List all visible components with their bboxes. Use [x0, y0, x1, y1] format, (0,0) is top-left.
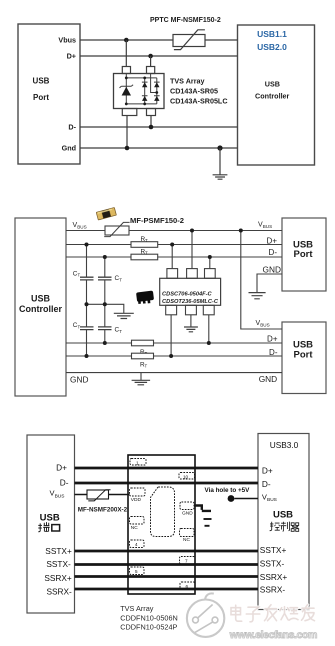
- ground bar 2: [205, 525, 210, 527]
- svg-text:D-: D-: [269, 248, 278, 257]
- dashed pin 7: [180, 557, 196, 565]
- label VBUS left: [50, 489, 65, 500]
- svg-text:CDSC706-0504F-C: CDSC706-0504F-C: [162, 291, 213, 297]
- wire D-: [80, 126, 238, 128]
- svg-text:BUS: BUS: [260, 323, 269, 328]
- svg-text:NC: NC: [183, 537, 190, 543]
- pin top 3: [205, 269, 216, 279]
- ground symbol: [219, 148, 221, 175]
- svg-text:CDSOT236-05MLC-C: CDSOT236-05MLC-C: [162, 299, 219, 305]
- label CT4: [115, 327, 123, 334]
- svg-text:VDD: VDD: [131, 497, 142, 503]
- svg-text:Port: Port: [294, 249, 314, 260]
- svg-text:MF-PSMF150-2: MF-PSMF150-2: [130, 216, 184, 225]
- svg-text:T: T: [145, 251, 148, 256]
- svg-text:6: 6: [186, 584, 189, 589]
- dashed pin 1: [130, 459, 146, 466]
- ground symbol CDSOT: [184, 327, 198, 332]
- wire D-: [75, 482, 259, 485]
- ground symbol top port: [249, 293, 266, 299]
- ground symbol GND line: [140, 373, 142, 380]
- TVS chip outline: [128, 455, 195, 594]
- svg-text:BUS: BUS: [77, 225, 86, 230]
- svg-text:www.elecfans.com: www.elecfans.com: [229, 629, 317, 641]
- wire Vbus: [80, 39, 238, 41]
- wire pin bottom3 to D+ bottom: [208, 315, 210, 343]
- svg-text:USB: USB: [273, 510, 293, 521]
- svg-text:SSRX+: SSRX+: [260, 572, 288, 582]
- label port CJK: [38, 522, 59, 532]
- resistor RT3: [132, 340, 154, 346]
- node D- cap2: [103, 255, 107, 259]
- TVS internal nodes: [125, 77, 158, 106]
- steering diodes column A: [142, 82, 148, 96]
- svg-text:Controller: Controller: [19, 304, 62, 314]
- svg-text:Port: Port: [33, 93, 49, 102]
- svg-text:SSTX-: SSTX-: [46, 559, 71, 569]
- svg-text:SSTX+: SSTX+: [45, 546, 72, 556]
- wire VBUS: [75, 494, 130, 496]
- GND trace from pin 9: [194, 506, 211, 511]
- resistor RT2: [131, 254, 158, 260]
- svg-text:D+: D+: [267, 334, 278, 343]
- USB Controller box: [15, 218, 66, 396]
- svg-text:CD143A-SR05LC: CD143A-SR05LC: [170, 97, 228, 106]
- capacitor CT2 plates: [98, 277, 112, 280]
- svg-text:T: T: [119, 278, 122, 283]
- capacitor CT3 plates: [80, 327, 94, 330]
- logo plug circles: [193, 617, 199, 623]
- label V_BUS top left: [73, 222, 87, 230]
- svg-text:USB1.1: USB1.1: [257, 29, 287, 39]
- node Gnd junction right: [217, 145, 222, 150]
- svg-text:TVS Array: TVS Array: [120, 604, 154, 613]
- wire via to controller: [234, 498, 258, 500]
- TVS CDSOT236 box: [160, 278, 221, 305]
- svg-text:USB: USB: [40, 513, 60, 524]
- label CT2: [115, 275, 123, 282]
- dashed pin 10: [179, 473, 195, 480]
- dashed pin 5: [130, 567, 145, 575]
- label controller CJK: [270, 522, 299, 532]
- zener diode D1: [120, 85, 134, 88]
- USB port box left: [27, 435, 75, 613]
- wire pin bottom2 to ground: [190, 315, 192, 327]
- label RT1: [141, 236, 149, 243]
- label RT2: [141, 248, 149, 255]
- svg-text:GND: GND: [70, 375, 88, 385]
- fuse MF-PSMF150-2: [105, 226, 129, 235]
- pin top 1: [167, 269, 178, 279]
- svg-text:5: 5: [135, 569, 138, 574]
- photo SOT23 chip: [136, 290, 154, 303]
- svg-text:SSRX+: SSRX+: [44, 573, 72, 583]
- wire Gnd: [80, 147, 238, 149]
- svg-text:Vbus: Vbus: [58, 36, 76, 45]
- label TVS Array part numbers: [120, 604, 178, 632]
- steering diodes column B: [154, 82, 160, 96]
- label RT4: [140, 361, 148, 368]
- wire GND: [66, 372, 282, 374]
- svg-text:Gnd: Gnd: [62, 144, 76, 153]
- wire SSTX-: [75, 563, 259, 566]
- node VBUS branch: [239, 229, 243, 233]
- label CDSOT part numbers: [162, 291, 219, 305]
- svg-text:CD143A-SR05: CD143A-SR05: [170, 86, 218, 95]
- svg-text:SSRX-: SSRX-: [46, 586, 72, 596]
- USB Port box top: [282, 218, 326, 291]
- svg-text:D+: D+: [56, 463, 67, 473]
- svg-text:GND: GND: [263, 264, 281, 274]
- label CT3: [73, 322, 81, 329]
- wire D+ bottom: [66, 342, 282, 344]
- svg-text:T: T: [78, 273, 81, 278]
- wire SSTX+: [75, 550, 259, 553]
- svg-text:BUS: BUS: [263, 224, 272, 229]
- svg-text:SSTX-: SSTX-: [260, 559, 285, 569]
- wire TVS pin3 to D-: [150, 116, 152, 128]
- dashed pin 6: [180, 582, 195, 589]
- node pinB1: [169, 354, 173, 358]
- wire pin bottom1 to D- bottom: [170, 315, 172, 356]
- svg-text:CDDFN10-0506N: CDDFN10-0506N: [120, 613, 178, 622]
- svg-text:GND: GND: [182, 510, 193, 516]
- dashed pin 9 GND: [180, 502, 194, 510]
- USB Port box bottom: [282, 322, 326, 394]
- label TVS Array CD143A-SR05: [170, 77, 228, 106]
- svg-text:T: T: [145, 364, 148, 369]
- svg-text:PPTC MF-NSMF150-2: PPTC MF-NSMF150-2: [150, 17, 221, 24]
- label CT1: [73, 270, 81, 277]
- capacitor CT4 plates: [98, 327, 112, 330]
- svg-text:TVS Array: TVS Array: [170, 77, 205, 86]
- die dashed outline: [151, 487, 175, 537]
- dashed pin 2 VDD: [130, 488, 146, 496]
- node Vbus junction: [124, 38, 129, 43]
- node D- junction: [149, 125, 154, 130]
- SECTION1: [18, 17, 315, 179]
- SECTION3: [27, 434, 309, 632]
- wire GND stub top port: [257, 274, 282, 292]
- USB controller box right: [258, 434, 309, 610]
- wire pin top3 to D-: [209, 257, 211, 269]
- svg-text:D-: D-: [68, 123, 76, 132]
- mid rail to ground: [87, 304, 124, 313]
- dashed pin 4: [130, 540, 145, 548]
- svg-text:D-: D-: [60, 478, 69, 488]
- fuse MF-NSMF200X-2: [87, 490, 109, 499]
- TVS array U1 package: [114, 74, 165, 109]
- capacitor column 2: [104, 257, 106, 343]
- node mid2: [103, 302, 107, 306]
- node D+ junction: [148, 54, 153, 59]
- wire VBUS branch to bottom port: [241, 231, 282, 330]
- svg-text:T: T: [119, 329, 122, 334]
- pin bottom 1: [166, 305, 177, 315]
- node D- cap3: [85, 354, 89, 358]
- svg-text:T: T: [145, 238, 148, 243]
- wire pin top1 to D+: [171, 245, 173, 269]
- labels right box: [260, 440, 299, 595]
- node mid1: [85, 302, 89, 306]
- node pinB3: [207, 341, 211, 345]
- TVS internal rails: [126, 74, 157, 104]
- SECTION2: [15, 207, 326, 396]
- ground bar 1: [204, 518, 212, 520]
- svg-text:SSTX+: SSTX+: [260, 545, 287, 555]
- photo PSMF chip: [96, 207, 117, 220]
- node pin1 D+: [170, 243, 174, 247]
- node Gnd junction left: [125, 146, 130, 151]
- logo circle: [187, 600, 224, 637]
- svg-text:D+: D+: [67, 52, 76, 61]
- watermark text dianzifashaoyou: [231, 605, 315, 622]
- svg-text:Controller: Controller: [255, 92, 290, 101]
- svg-text:T: T: [78, 324, 81, 329]
- capacitor column 1: [86, 245, 88, 357]
- logo tail: [205, 593, 214, 600]
- resistor RT1: [131, 242, 158, 248]
- svg-text:1: 1: [136, 460, 139, 465]
- wire D- bottom: [66, 355, 282, 357]
- ground symbol mid: [114, 313, 134, 318]
- via dot: [228, 495, 235, 502]
- wire Vbus to TVS pin1: [125, 40, 127, 67]
- PPTC fuse F1: [173, 35, 205, 47]
- svg-text:USB: USB: [31, 294, 51, 304]
- wire pin top2 to VBUS: [191, 231, 193, 269]
- svg-text:Port: Port: [294, 349, 314, 360]
- resistor RT4: [132, 353, 154, 359]
- wire D+ to TVS pin2: [150, 56, 152, 67]
- dashed pin 3 NC: [130, 517, 145, 525]
- svg-text:USB3.0: USB3.0: [270, 440, 299, 450]
- svg-text:MF-NSMF200X-2: MF-NSMF200X-2: [78, 507, 128, 514]
- wire D+ top: [66, 244, 282, 246]
- wire SSRX+: [75, 575, 259, 578]
- wire TVS pin4 to Gnd: [126, 116, 128, 149]
- pin top 2: [187, 269, 198, 279]
- node D+ cap1: [85, 243, 89, 247]
- capacitor CT1 plates: [80, 277, 94, 280]
- pin bottom 2: [186, 305, 197, 315]
- USB Port box (left): [18, 24, 80, 164]
- wire D+: [80, 55, 238, 57]
- svg-text:D-: D-: [269, 348, 278, 357]
- node pin3 D-: [208, 255, 212, 259]
- svg-text:NC: NC: [131, 525, 138, 531]
- labels left box: [44, 463, 72, 597]
- wire VBUS top: [66, 230, 282, 232]
- wire SSRX-: [75, 588, 259, 591]
- svg-text:BUS: BUS: [55, 493, 65, 499]
- svg-text:7: 7: [185, 559, 188, 564]
- svg-text:D+: D+: [262, 466, 273, 476]
- svg-text:USB: USB: [265, 79, 280, 88]
- label VBUS right: [262, 492, 277, 503]
- USB Controller box (right): [238, 25, 315, 165]
- svg-text:USB: USB: [33, 77, 50, 86]
- node D+ cap4: [103, 341, 107, 345]
- svg-text:BUS: BUS: [267, 497, 277, 503]
- svg-text:D+: D+: [267, 236, 278, 245]
- svg-text:GND: GND: [259, 374, 277, 384]
- wire D+: [75, 467, 259, 470]
- svg-text:CDDFN10-0524P: CDDFN10-0524P: [120, 623, 177, 632]
- svg-text:USB2.0: USB2.0: [257, 42, 287, 52]
- label V_BUS bottom: [256, 320, 270, 328]
- svg-text:SSRX-: SSRX-: [260, 585, 286, 595]
- dashed pin 8 NC: [180, 529, 195, 537]
- label RT3: [140, 349, 148, 356]
- wire D- top: [66, 256, 282, 258]
- svg-text:10: 10: [183, 474, 189, 479]
- svg-text:D-: D-: [262, 479, 271, 489]
- pin bottom 3: [203, 305, 214, 315]
- svg-text:Via hole to +5V: Via hole to +5V: [205, 487, 251, 494]
- node pin2 VBUS: [190, 229, 194, 233]
- svg-text:4: 4: [135, 542, 138, 547]
- WATERMARK: [187, 593, 317, 640]
- label V_BUS top right: [258, 222, 272, 230]
